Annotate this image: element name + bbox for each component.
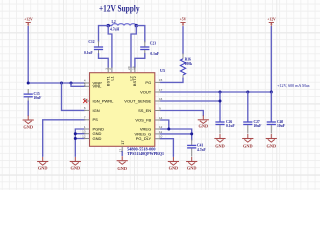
capacitor C15 [24, 89, 42, 102]
wire +5V to R16 [182, 27, 184, 55]
pin stub VREG_G [155, 133, 161, 135]
capacitor C27 [243, 120, 262, 134]
svg-text:+12V Supply: +12V Supply [99, 4, 140, 14]
junction VOUT rail / C27 [246, 91, 249, 94]
power port +5V [180, 18, 187, 27]
wire VREG_G [160, 133, 192, 135]
wire PS to ground [43, 120, 85, 157]
wire IGN drop [62, 83, 86, 110]
pin stub PAD17 [121, 146, 123, 152]
svg-text:IGN_PWRL: IGN_PWRL [93, 98, 115, 103]
ground PS [37, 157, 48, 171]
pin stub GND13 [84, 133, 90, 135]
wire VOUT_SENSE [160, 100, 220, 102]
wire input rail to VINP [28, 82, 85, 84]
wire VOUT rail [160, 91, 271, 93]
pin stub VINP [84, 82, 90, 84]
wire VOUT rail down to C26 [219, 92, 221, 122]
pin stub PG [155, 81, 161, 83]
svg-text:GND: GND [23, 124, 33, 129]
junction L2 left [107, 24, 110, 27]
svg-text:10uF: 10uF [277, 124, 286, 128]
svg-text:C41: C41 [197, 144, 203, 148]
junction input rail / IGN drop [60, 82, 63, 85]
ground PAD17 [117, 156, 128, 171]
wire VOS_FB to VREG [160, 120, 169, 129]
junction input rail / VINL drop [70, 82, 73, 85]
wire C12 to pin BST1 [99, 54, 109, 69]
pin stub VOUT [155, 91, 161, 93]
svg-text:+12V: +12V [24, 18, 33, 22]
ground C40 [266, 134, 277, 148]
svg-text:0.1uF: 0.1uF [226, 124, 235, 128]
pin stub VOUT_SENSE [155, 100, 161, 102]
svg-text:17: 17 [120, 140, 125, 145]
svg-text:17: 17 [159, 88, 163, 92]
capacitor C40 [267, 120, 286, 134]
junction GND bus 2 [74, 137, 77, 140]
svg-text:C12: C12 [88, 40, 94, 44]
svg-text:GND: GND [199, 124, 209, 129]
ground SS_EN [198, 115, 209, 128]
svg-text:+12V: +12V [267, 18, 276, 22]
junction GND bus 1 [74, 132, 77, 135]
junction VOS_FB/VREG [167, 128, 170, 131]
pin stub SS_EN [155, 110, 161, 112]
wire R16 to PG [160, 78, 183, 82]
svg-text:SS_EN: SS_EN [138, 108, 151, 113]
ground C27 [242, 134, 253, 148]
capacitor C23 [140, 41, 160, 56]
junction input rail / C15 [27, 82, 30, 85]
svg-text:C23: C23 [150, 41, 156, 45]
svg-text:12: 12 [159, 125, 163, 129]
capacitor C26 [215, 120, 235, 134]
wire +12V down to VOUT rail [270, 27, 272, 93]
svg-text:GND: GND [267, 143, 277, 148]
resistor R16 [180, 54, 192, 79]
svg-text:20: 20 [127, 66, 131, 70]
power port +12V (output) [267, 18, 276, 27]
wire L2 right to C23 [136, 26, 145, 42]
junction VOUT rail / C26 [219, 91, 222, 94]
wire C23 to pin BST2 [135, 54, 145, 69]
wire +12V down to input rail [27, 27, 29, 84]
capacitor C41 [187, 140, 206, 157]
svg-text:GND: GND [215, 143, 225, 148]
svg-text:14: 14 [159, 116, 163, 120]
pin stub IGN [84, 109, 90, 111]
svg-text:11: 11 [159, 130, 162, 134]
svg-text:U5: U5 [160, 68, 165, 73]
svg-text:GND: GND [117, 166, 127, 171]
wire C15 to ground [27, 101, 29, 116]
svg-text:17: 17 [119, 149, 123, 153]
svg-text:GND: GND [71, 166, 81, 171]
svg-text:0.1uF: 0.1uF [84, 51, 93, 55]
svg-text:16: 16 [159, 97, 163, 101]
pin stub BST1 [107, 67, 109, 73]
svg-text:PG: PG [145, 80, 151, 85]
svg-text:GND: GND [187, 165, 197, 170]
svg-text:VOS_FB: VOS_FB [135, 117, 151, 122]
svg-text:L1: L1 [109, 75, 114, 80]
svg-text:4.7nF: 4.7nF [197, 148, 206, 152]
svg-text:BST2: BST2 [132, 75, 137, 86]
ground PGND bus [70, 157, 81, 171]
pin stub L2 [130, 67, 132, 73]
wire L2 right to pin L2 [131, 26, 136, 68]
wire VREG to C41 [160, 129, 192, 140]
capacitor C12 [84, 40, 103, 55]
svg-text:GND: GND [243, 143, 253, 148]
svg-text:VOUT_SENSE: VOUT_SENSE [124, 98, 151, 103]
ground PG_DLY [168, 157, 179, 170]
svg-text:0.1uF: 0.1uF [150, 52, 159, 56]
svg-text:10uF: 10uF [34, 96, 43, 100]
svg-text:18: 18 [132, 66, 136, 70]
svg-text:VINL: VINL [93, 84, 103, 89]
svg-text:10: 10 [159, 135, 163, 139]
pin stub VINL [84, 85, 90, 87]
svg-text:GND: GND [38, 166, 48, 171]
pin stub GND12 [84, 138, 90, 140]
svg-text:L2: L2 [112, 20, 116, 24]
wire +12V down to C40 [270, 92, 272, 122]
pin stub PS [84, 119, 90, 121]
svg-text:VOUT: VOUT [140, 89, 152, 94]
svg-text:13: 13 [82, 130, 86, 134]
svg-text:PG_DLY: PG_DLY [136, 136, 152, 141]
ground C15 [23, 116, 34, 130]
junction VOUT_SENSE tap [219, 100, 222, 103]
svg-text:GND: GND [93, 136, 102, 141]
pin stub IGN_PWRL with no-connect [83, 99, 89, 103]
svg-text:15: 15 [159, 78, 163, 82]
wire VOUT rail down to C27 [247, 92, 249, 122]
IC U5 body (TPS51140QPWPRQ1) [90, 73, 155, 147]
wire PG_DLY to ground [160, 139, 173, 157]
pin stub PG_DLY [155, 138, 161, 140]
power port +12V (left input) [24, 18, 33, 27]
junction VREG_G/C41 [190, 132, 193, 135]
svg-text:100k: 100k [185, 62, 192, 66]
pin stub PGND [84, 128, 90, 130]
wire L2 left to pin L1 [108, 26, 112, 68]
svg-text:12: 12 [82, 134, 86, 138]
wire PGND/GND bus [75, 129, 85, 156]
wire SS_EN to ground [160, 111, 203, 116]
junction VOUT rail / C40 [270, 91, 273, 94]
pin stub VOS_FB [155, 119, 161, 121]
svg-text:TPS51140QPWPRQ1: TPS51140QPWPRQ1 [127, 151, 164, 156]
svg-text:+5V: +5V [180, 18, 187, 22]
svg-text:PS: PS [93, 117, 99, 122]
pin stub L1 [111, 67, 113, 73]
svg-text:4.7uH: 4.7uH [110, 27, 119, 31]
wire L2 left to C12 [99, 26, 109, 42]
wire PAD17 to ground [121, 152, 123, 156]
svg-text:10uF: 10uF [254, 124, 263, 128]
wire VINL drop [71, 83, 85, 86]
pin stub BST2 [134, 67, 136, 73]
inductor L2 [108, 20, 136, 31]
pin stub VREG [155, 128, 161, 130]
svg-text:IGN: IGN [93, 108, 100, 113]
junction L2 right [135, 24, 138, 27]
ground C26 [214, 134, 225, 148]
svg-text:GND: GND [169, 165, 179, 170]
ground C41 [186, 157, 197, 170]
